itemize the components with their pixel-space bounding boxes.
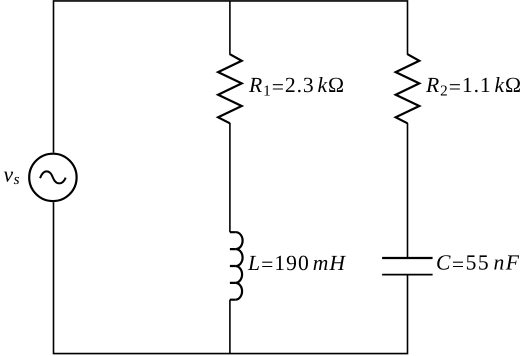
svg-text:vs: vs — [4, 163, 21, 189]
svg-text:C=55 nF: C=55 nF — [436, 251, 521, 277]
svg-text:R2=1.1 kΩ: R2=1.1 kΩ — [425, 73, 522, 99]
svg-text:R1=2.3 kΩ: R1=2.3 kΩ — [248, 73, 345, 99]
svg-text:L=190 mH: L=190 mH — [247, 251, 346, 277]
